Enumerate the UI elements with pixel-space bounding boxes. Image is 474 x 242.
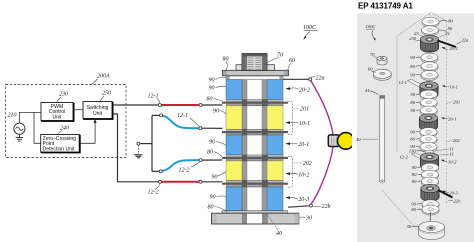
- svg-text:240: 240: [60, 124, 69, 131]
- svg-text:Unit: Unit: [52, 114, 62, 120]
- washer 90 i: [422, 200, 439, 210]
- washer 90 c: [420, 90, 437, 100]
- node: [199, 180, 202, 183]
- node: [160, 114, 163, 117]
- svg-text:90: 90: [412, 165, 417, 170]
- zero-crossing point detection unit 240: [41, 135, 79, 153]
- dashed unit bracket 202: [288, 157, 293, 188]
- svg-text:90: 90: [210, 195, 216, 201]
- top clamp bar 60: [223, 70, 289, 76]
- node 22b: [309, 204, 312, 207]
- svg-text:10-1: 10-1: [299, 121, 310, 127]
- svg-text:22a: 22a: [462, 37, 470, 42]
- washer 11 on unit: [425, 150, 433, 154]
- dashed enclosure 200A: [6, 85, 127, 158]
- wire junction to zero-crossing: [34, 112, 41, 143]
- label 100C: [303, 25, 318, 40]
- center white column: [247, 76, 262, 224]
- piezo unit 10-1: [420, 82, 438, 99]
- base disc 30 (panel): [419, 222, 445, 240]
- washer 90 b: [421, 71, 438, 81]
- svg-text:202: 202: [453, 138, 461, 143]
- svg-text:90: 90: [410, 129, 415, 134]
- svg-text:60: 60: [289, 58, 295, 64]
- svg-text:80: 80: [448, 19, 453, 24]
- svg-text:12-2: 12-2: [148, 190, 159, 196]
- electrode plate band 3: [222, 155, 288, 161]
- svg-text:41: 41: [365, 88, 370, 93]
- svg-text:90: 90: [212, 175, 218, 181]
- node 22a: [309, 78, 312, 81]
- washer 90 f: [420, 142, 437, 152]
- wire AC to PWM: [19, 112, 41, 123]
- svg-text:90: 90: [209, 140, 215, 146]
- electrode plate band 1: [222, 100, 288, 106]
- washer 90 g: [421, 163, 438, 173]
- lamp wire upper (magenta): [311, 81, 333, 136]
- electrode ribbon 12-2: [412, 153, 428, 161]
- washer 90 a: [421, 53, 438, 63]
- lamp socket: [328, 135, 339, 147]
- lead wire 22a (panel): [438, 41, 457, 48]
- svg-text:210: 210: [8, 113, 17, 119]
- ground (source): [18, 134, 20, 137]
- hex nut 70 (panel): [377, 56, 387, 65]
- svg-text:22b: 22b: [322, 204, 331, 210]
- svg-text:90: 90: [213, 109, 219, 115]
- piezo unit 20-1: [419, 114, 437, 131]
- base plate 30: [212, 213, 299, 224]
- piezo unit 10-2: [420, 153, 438, 170]
- svg-text:12-2: 12-2: [400, 154, 409, 159]
- svg-text:30: 30: [305, 216, 312, 222]
- construction axis (dashed): [429, 14, 431, 221]
- svg-text:70: 70: [370, 52, 375, 57]
- washer 80 i: [422, 205, 439, 215]
- iso box edges: [397, 13, 431, 37]
- shaft 40 (panel): [380, 96, 385, 184]
- electrode ribbon 12-1: [408, 79, 425, 88]
- switching unit 250: [83, 102, 112, 119]
- svg-text:90: 90: [410, 55, 415, 60]
- svg-text:12-2: 12-2: [179, 168, 190, 174]
- common bus: [151, 115, 153, 171]
- node: [199, 159, 202, 162]
- bolt shaft strip left: [242, 76, 247, 224]
- label 20-3: [285, 196, 290, 199]
- svg-text:21: 21: [445, 31, 450, 36]
- svg-text:80: 80: [411, 207, 416, 212]
- svg-text:12-1: 12-1: [148, 94, 159, 100]
- svg-text:90: 90: [209, 86, 215, 92]
- label 20-1: [285, 142, 290, 145]
- svg-text:80: 80: [207, 150, 213, 156]
- svg-text:80: 80: [410, 137, 415, 142]
- washer 80 e: [420, 135, 437, 145]
- piezo yellow band 2: [226, 161, 242, 181]
- svg-text:Detection Unit: Detection Unit: [43, 146, 76, 152]
- svg-text:80: 80: [207, 97, 213, 103]
- ground wire mid: [138, 143, 152, 145]
- axis pin: [429, 212, 431, 226]
- electrode plate band 2: [222, 129, 288, 135]
- label 10-2: [285, 172, 290, 175]
- piezo blue band 1: [226, 80, 242, 100]
- blue wire stub top: [152, 114, 160, 116]
- svg-text:201: 201: [453, 100, 460, 105]
- washer 90 e: [420, 128, 437, 138]
- svg-text:20-2: 20-2: [299, 88, 310, 94]
- disc 60 (panel): [373, 69, 391, 80]
- wire PWM to switching: [74, 109, 83, 111]
- washer 90 h: [421, 177, 438, 187]
- wire ZC to switching with arrow: [80, 122, 95, 144]
- svg-text:90: 90: [209, 78, 215, 84]
- svg-text:201: 201: [300, 107, 309, 113]
- washer 90 top: [421, 26, 438, 36]
- bottom thin plate 80: [222, 211, 288, 214]
- washer 80 c: [420, 98, 437, 108]
- label 10-1: [285, 121, 290, 124]
- piezo blue band 3: [226, 187, 242, 211]
- AC source 210: [14, 123, 25, 134]
- node: [159, 170, 162, 173]
- svg-text:11: 11: [450, 152, 454, 157]
- svg-text:200A: 200A: [97, 74, 110, 80]
- svg-text:40: 40: [276, 230, 282, 237]
- svg-text:10-2: 10-2: [448, 159, 457, 164]
- svg-text:EP 4131749 A1: EP 4131749 A1: [358, 1, 413, 10]
- blue wire 12-1: [162, 116, 200, 129]
- node: [199, 104, 202, 107]
- svg-text:90: 90: [411, 108, 416, 113]
- node: [137, 142, 140, 145]
- svg-text:90: 90: [411, 92, 416, 97]
- top insulator plate 90: [226, 76, 283, 80]
- bolt 40 through base: [242, 214, 247, 224]
- svg-text:20-2: 20-2: [449, 46, 458, 51]
- node: [159, 180, 162, 183]
- svg-text:250: 250: [102, 91, 111, 97]
- piezo unit 20-2: [420, 35, 438, 52]
- PWM control unit 230: [41, 103, 73, 121]
- washer 80 g: [421, 170, 438, 180]
- svg-text:30: 30: [407, 224, 412, 229]
- ground symbol mid (dashed stem): [137, 145, 139, 154]
- svg-text:80: 80: [223, 57, 229, 63]
- svg-text:90: 90: [411, 202, 416, 207]
- wire 22b: [288, 206, 310, 207]
- svg-text:22b: 22b: [454, 198, 462, 203]
- svg-text:22a: 22a: [316, 76, 325, 82]
- svg-text:80: 80: [208, 205, 214, 211]
- svg-text:90: 90: [410, 72, 415, 77]
- svg-text:100C: 100C: [366, 24, 377, 29]
- svg-text:230: 230: [409, 36, 417, 41]
- svg-text:Unit: Unit: [93, 111, 103, 117]
- lead wire 22b (panel): [438, 190, 453, 198]
- node: [158, 104, 161, 107]
- red wire 12-2: [162, 181, 200, 183]
- label 20-2: [285, 87, 290, 90]
- blue wire 12-2: [162, 160, 200, 171]
- svg-text:12-1: 12-1: [177, 113, 188, 119]
- wire B drop from switching: [113, 114, 158, 182]
- svg-text:20-1: 20-1: [298, 142, 309, 148]
- lamp wire lower (magenta): [311, 146, 333, 204]
- svg-text:202: 202: [303, 161, 312, 167]
- piezo yellow band 1: [226, 106, 242, 130]
- nut 70: [242, 54, 267, 71]
- blue wire stub bottom: [152, 170, 160, 172]
- washer 80 a: [421, 62, 438, 72]
- svg-text:80: 80: [411, 100, 416, 105]
- wire 22a: [283, 78, 309, 80]
- node: [199, 127, 202, 130]
- svg-text:60: 60: [368, 66, 373, 71]
- svg-text:80: 80: [412, 172, 417, 177]
- svg-text:20-3: 20-3: [298, 197, 309, 203]
- washer step: [236, 65, 275, 71]
- electrode plate band 4: [222, 180, 288, 187]
- washer 90 d: [420, 106, 437, 116]
- svg-text:12-1: 12-1: [399, 80, 407, 85]
- svg-text:230: 230: [59, 92, 68, 98]
- svg-text:80: 80: [410, 64, 415, 69]
- washer 80 top: [422, 17, 439, 27]
- piezo blue band 2: [226, 135, 242, 155]
- red wire 12-1: [161, 104, 199, 106]
- svg-text:20-3: 20-3: [449, 190, 458, 195]
- svg-text:10-1: 10-1: [450, 84, 458, 89]
- svg-text:40: 40: [356, 137, 361, 142]
- bolt shaft strip right: [262, 76, 268, 224]
- svg-text:90: 90: [412, 179, 417, 184]
- svg-text:10-2: 10-2: [298, 173, 309, 179]
- piezo unit 20-3: [421, 184, 439, 201]
- wire A from switching (12-1 top): [113, 104, 158, 106]
- dashed unit bracket 201: [288, 101, 293, 134]
- svg-text:20-1: 20-1: [448, 116, 456, 121]
- lamp bulb: [338, 133, 355, 150]
